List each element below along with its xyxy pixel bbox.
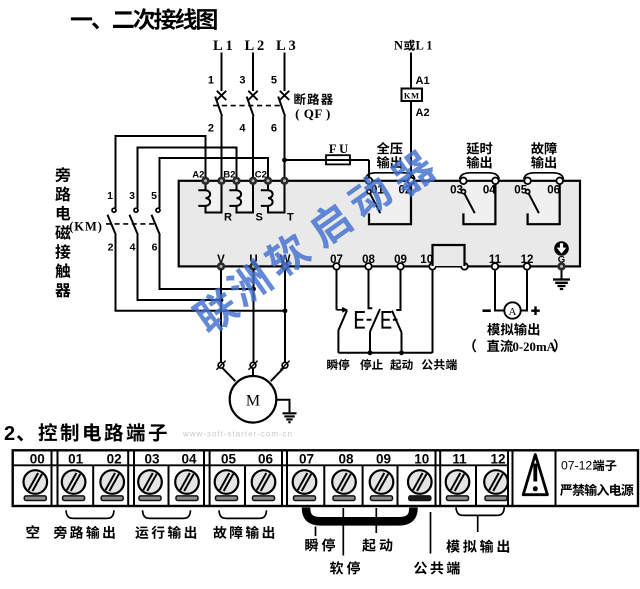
brace 运行输出 (03-04) [143, 510, 191, 518]
junction FU tap [282, 158, 287, 163]
relay 故障输出 bracket [528, 184, 560, 224]
relay 全压输出 bracket [369, 184, 411, 224]
terminal 07 screw [293, 470, 317, 494]
strip cell separator x=245.0 [244, 465, 246, 506]
wire G to earth [561, 271, 563, 279]
relay 故障输出 contact [526, 190, 530, 194]
terminal 12 clamp bar [485, 496, 507, 501]
junction on W wire [283, 308, 288, 313]
polarity minus [483, 309, 491, 312]
terminal 10 clamp bar [409, 496, 431, 501]
strip cell separator x=362.6 [362, 465, 364, 506]
motor terminal x=285 [280, 361, 289, 370]
svg-text:5: 5 [271, 75, 277, 87]
svg-text:A1: A1 [416, 75, 430, 87]
relay output 延时输出 terminal arc [460, 173, 500, 180]
label (直流0-20mA) [472, 339, 476, 352]
strip group boundary x=435.5 [436, 450, 441, 506]
terminal 11 screw [446, 470, 470, 494]
contactor KM pole 1 contact [112, 208, 116, 212]
terminal 07 [333, 263, 340, 270]
breaker QF pole 3 blade [278, 97, 285, 117]
junction on V wire [219, 298, 224, 303]
svg-text:S: S [256, 212, 263, 224]
motor M [230, 376, 277, 423]
terminal 01 clamp bar [63, 496, 85, 501]
motor terminal x=253 [248, 361, 257, 370]
label 运行输出 [135, 526, 196, 539]
junction on U wire [251, 287, 256, 292]
wire breaker 2 to R [221, 116, 223, 177]
terminal 10 [429, 263, 436, 270]
svg-text:06: 06 [258, 451, 274, 466]
label 起动 [390, 359, 412, 370]
wire L2 to breaker pole 2 [252, 53, 254, 92]
brace 旁路输出 (01-02) [66, 510, 114, 518]
warning triangle [523, 455, 547, 495]
terminal 09 screw [370, 470, 394, 494]
pointer 软停 [342, 508, 344, 556]
svg-text:07-12: 07-12 [561, 459, 592, 473]
svg-text:2: 2 [108, 242, 114, 254]
wire contactor to terminal at x=205.5 [116, 136, 206, 208]
breaker QF pole 3 contact X [280, 91, 289, 100]
brace 故障输出 (05-06) [219, 510, 267, 518]
terminal 04 [492, 178, 499, 185]
label 旁路输出 [54, 526, 115, 539]
button 瞬停 (NC) [337, 309, 343, 311]
svg-text:05: 05 [221, 451, 237, 466]
label 全压输出 [377, 142, 403, 155]
strip group boundary x=51.5 [52, 450, 58, 506]
svg-text:06: 06 [547, 184, 560, 196]
svg-text:04: 04 [483, 184, 496, 196]
wire W to motor [284, 269, 286, 362]
terminal 01 screw [62, 470, 86, 494]
svg-text:09: 09 [376, 451, 391, 466]
button 停止 (E-, NC) [356, 312, 372, 328]
svg-text:A2: A2 [416, 107, 430, 119]
label 故障输出 [213, 526, 274, 539]
svg-text:6: 6 [152, 242, 158, 254]
svg-text:04: 04 [181, 451, 197, 466]
wire 08 to button 停止 [369, 269, 373, 308]
terminal V [217, 262, 225, 270]
polarity plus [531, 306, 540, 315]
svg-text:5: 5 [151, 190, 157, 202]
fuse FU [326, 155, 350, 164]
earth icon (shield) [554, 241, 569, 256]
svg-text:07: 07 [299, 451, 314, 466]
strip group boundary x=508.0 [508, 450, 513, 506]
wire 10 common [432, 269, 434, 352]
relay 全压输出 contact [367, 190, 371, 194]
svg-text:L 3: L 3 [276, 38, 296, 54]
label 断路器 [294, 93, 333, 105]
terminal 11 clamp bar [447, 496, 469, 501]
wire KM coil A2 to terminal 02 [410, 101, 412, 178]
wire contactor pole3 to U [160, 235, 254, 289]
svg-text:N: N [394, 38, 403, 52]
svg-text:2: 2 [4, 423, 15, 445]
svg-text:00: 00 [30, 451, 45, 466]
relay 延时输出 contact [461, 190, 465, 194]
terminal 01 [366, 178, 373, 185]
svg-text:T: T [287, 212, 294, 224]
label 严禁输入电源 [560, 484, 634, 496]
pointer 模拟输出 [477, 516, 479, 532]
svg-text:4: 4 [130, 242, 136, 254]
breaker QF pole 1 blade [215, 97, 222, 117]
wire contactor pole1 to W [116, 235, 286, 311]
terminal 10 screw [408, 470, 432, 494]
svg-text:( QF ): ( QF ) [295, 106, 331, 121]
svg-text:12: 12 [490, 451, 505, 466]
wire 11 to ammeter [495, 269, 504, 310]
terminal 06 screw [252, 470, 276, 494]
contactor KM pole 1 blade [108, 215, 116, 235]
svg-text:08: 08 [338, 451, 354, 466]
terminal 00 clamp bar [24, 496, 46, 501]
label 模拟输出 (strip) [446, 540, 509, 553]
strip group boundary x=128.2 [128, 450, 134, 506]
wire breaker 4 to S [252, 116, 254, 177]
ground symbol (motor earth) [283, 413, 297, 422]
terminal 05 clamp bar [216, 496, 238, 501]
terminal C2 [264, 177, 272, 185]
label 旁路电磁接触器 (vertical) [55, 167, 70, 182]
wire 12 to ammeter [521, 269, 527, 310]
strip cell separator x=476.0 [475, 465, 477, 506]
pointer 公共端 [430, 512, 432, 554]
strip cell separator x=397.5 [397, 465, 399, 506]
wire 07 to button 瞬停 [336, 269, 338, 309]
pointer 起动 [375, 508, 377, 533]
strip cell separator x=324.3 [323, 465, 325, 506]
terminal strip body [13, 450, 638, 506]
label 模拟输出 [487, 323, 539, 336]
terminal 00 screw [24, 470, 48, 494]
wire motor lead left [222, 368, 235, 382]
terminal 12 [524, 263, 531, 270]
strip group boundary x=282.0 [282, 450, 287, 506]
svg-text:1: 1 [208, 75, 214, 87]
breaker QF pole 1 contact X [217, 91, 226, 100]
svg-text:2: 2 [208, 123, 214, 135]
terminal 10 [461, 263, 468, 270]
terminal B2 [232, 177, 240, 185]
wire contactor pole2 to V [138, 235, 222, 300]
label 公共端 (strip) [414, 561, 460, 574]
svg-text:0-20mA: 0-20mA [513, 340, 557, 354]
terminal 02 screw [100, 470, 124, 494]
junction 起动 on bus [399, 350, 404, 355]
terminal R [217, 177, 225, 185]
relay 延时输出 bracket [463, 184, 495, 224]
label 公共端 [422, 359, 457, 370]
svg-text:A: A [509, 306, 517, 318]
contactor KM pole 2 blade [130, 215, 138, 235]
pointer 瞬停 [315, 527, 317, 537]
strip group boundary x=204.0 [204, 450, 210, 506]
wire button common bus [338, 352, 432, 354]
terminal 05 [524, 178, 531, 185]
terminal 08 clamp bar [333, 496, 355, 501]
wire L1 to breaker pole 1 [221, 53, 223, 92]
wire contactor to terminal at x=268.0 [160, 158, 269, 208]
junction 停止 on bus [368, 350, 373, 355]
terminal U [249, 262, 257, 270]
terminal S [249, 177, 257, 185]
thermal element S phase [229, 184, 253, 213]
terminal T [280, 177, 288, 185]
wire 09 to button 起动 [396, 269, 400, 310]
svg-text:01: 01 [68, 451, 84, 466]
svg-text:3: 3 [239, 75, 245, 87]
svg-text:L 2: L 2 [245, 38, 265, 54]
label 故障输出 [531, 142, 556, 155]
terminal 08 screw [332, 470, 356, 494]
terminal 09 [397, 263, 404, 270]
svg-text:10: 10 [414, 451, 429, 466]
breaker QF gang link (dashed) [213, 105, 281, 107]
terminal 12 screw [484, 470, 508, 494]
contactor KM pole 3 contact [156, 208, 160, 212]
relay output 故障输出 terminal arc [524, 173, 564, 180]
svg-text:6: 6 [271, 123, 277, 135]
svg-text:(KM): (KM) [69, 220, 103, 234]
terminal G [557, 262, 565, 270]
label 延时输出 [467, 142, 493, 154]
contactor KM pole 3 blade [152, 215, 160, 235]
label 起动 (strip) [362, 538, 392, 551]
svg-text:1: 1 [107, 190, 113, 202]
wire N to KM coil A1 [410, 53, 412, 89]
terminal 05 screw [215, 470, 239, 494]
ground symbol (box earth) [553, 280, 570, 290]
breaker QF pole 2 contact X [248, 91, 257, 100]
svg-text:L 1: L 1 [416, 38, 433, 52]
thermal element R phase [198, 184, 221, 213]
svg-text:KM: KM [404, 91, 420, 101]
button 起动 (E-, NO) [382, 312, 397, 328]
terminal 08 [365, 263, 372, 270]
svg-text:11: 11 [452, 451, 467, 466]
strip number header line [13, 464, 508, 466]
terminal 06 [556, 178, 563, 185]
link box between 10 and 10 [433, 245, 465, 266]
label 空 [26, 525, 39, 538]
label 瞬停 [327, 359, 349, 370]
watermark 联洲软启动器 [189, 147, 439, 339]
svg-text:02: 02 [107, 451, 122, 466]
thermal element T phase [261, 184, 285, 213]
wire to FU and 01 [285, 160, 370, 178]
svg-text:03: 03 [144, 451, 160, 466]
label 软停 (strip) [330, 561, 360, 574]
terminal 07 clamp bar [294, 496, 316, 501]
svg-text:R: R [224, 212, 232, 224]
thick brace buttons (07-10) [306, 508, 414, 522]
title: 一、二次接线图 [71, 8, 217, 30]
strip triangle cell boundary [555, 450, 557, 506]
terminal 03 [460, 178, 467, 185]
contactor coil KM [402, 89, 423, 102]
breaker QF pole 2 blade [247, 97, 254, 117]
svg-text:3: 3 [129, 190, 135, 202]
terminal W [281, 262, 289, 270]
terminal 09 clamp bar [371, 496, 393, 501]
terminal A2 [201, 177, 209, 185]
strip cell separator x=168.5 [168, 465, 170, 506]
wire L3 to breaker pole 3 [284, 53, 286, 92]
contactor KM gang link (dashed) [106, 223, 157, 225]
relay output 全压输出 terminal arc [365, 173, 415, 180]
wire motor lead right [271, 368, 284, 382]
terminal 03 screw [138, 470, 162, 494]
brace 模拟输出 (11-12) [456, 507, 504, 515]
terminal 02 [408, 178, 415, 185]
strip cell separator x=93.2 [92, 465, 94, 506]
wire U to motor [253, 269, 255, 362]
wire motor to earth [276, 400, 289, 413]
svg-text:L 1: L 1 [213, 38, 233, 54]
terminal 11 [492, 263, 499, 270]
terminal 02 clamp bar [101, 496, 123, 501]
terminal 04 screw [175, 470, 199, 494]
wire motor lead mid [252, 368, 254, 376]
wire breaker 6 to T [284, 116, 286, 177]
wire contactor to terminal at x=236.5 [138, 148, 237, 209]
terminal 03 clamp bar [139, 496, 161, 501]
contactor KM pole 2 contact [134, 208, 138, 212]
svg-text:www-soft-starter-com-cn: www-soft-starter-com-cn [182, 430, 293, 439]
terminal 06 clamp bar [253, 496, 275, 501]
ammeter A [504, 302, 520, 318]
label 瞬停 (strip) [305, 538, 335, 551]
wire V to motor [220, 269, 222, 362]
soft starter unit body [179, 181, 580, 267]
terminal 04 clamp bar [176, 496, 198, 501]
svg-text:F U: F U [329, 142, 348, 156]
label 停止 [360, 359, 382, 370]
svg-text:M: M [246, 392, 260, 409]
motor terminal x=221 [216, 361, 225, 370]
svg-text:4: 4 [239, 123, 246, 135]
